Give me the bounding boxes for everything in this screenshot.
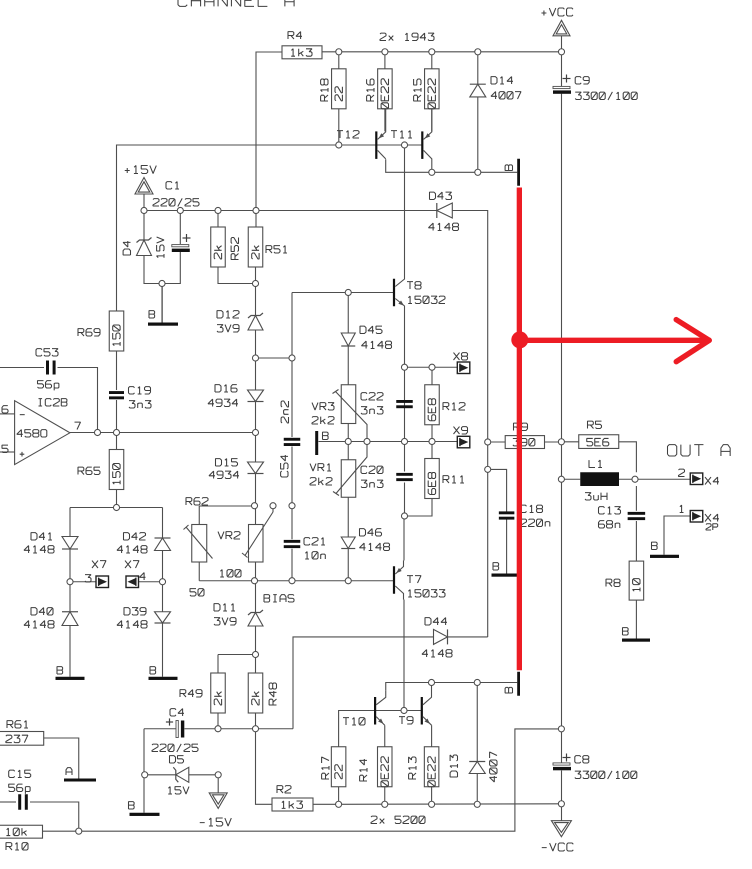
capacitor C21 (284, 540, 301, 543)
net B tick bottom (517, 672, 520, 696)
resistor R49 (211, 673, 226, 713)
wire D41/D40 column to ground (69, 549, 71, 612)
wire X8 row y=367.25 (405, 366, 458, 368)
wire bias row y=580.75 to T7 base (199, 580, 393, 582)
diode D11 zener 3V9 (248, 610, 263, 615)
transistor T11 (421, 131, 423, 159)
resistor R13 (424, 747, 439, 787)
junction (401, 513, 407, 519)
capacitor C18 (499, 511, 514, 514)
terminal X7 pin4 (126, 576, 139, 588)
junction (252, 429, 258, 435)
wire T10/T9 base row (375, 710, 422, 712)
net A tick (64, 779, 96, 782)
diode D45 (341, 333, 355, 346)
junction (141, 207, 147, 213)
junction (252, 726, 258, 732)
wire D42/D39 column to ground (162, 551, 164, 612)
wire R69/C19/R65 feedback column (116, 350, 118, 390)
junction (215, 772, 221, 778)
junction (142, 772, 148, 778)
junction (429, 169, 435, 175)
resistor R51 (248, 227, 263, 267)
wire D45 VR3 VR1 D46 column (347, 293, 349, 334)
wire R52 column (217, 211, 219, 228)
wire C15 row (0, 801, 16, 803)
wire D44 row (293, 637, 434, 729)
wire D5 row to -15V (144, 774, 176, 776)
resistor R69 (109, 311, 124, 351)
net B tick bias (315, 431, 318, 455)
diode D44 (434, 629, 448, 644)
wire L1 row to X4-2 (561, 478, 580, 480)
transistor T8 (393, 279, 395, 307)
resistor R18 (338, 52, 340, 69)
wire R62 branch (199, 505, 254, 507)
junction (401, 707, 407, 713)
resistor R16 (384, 52, 386, 69)
label OUT A (668, 445, 731, 456)
junction (215, 726, 221, 732)
red annotation vertical line (517, 188, 522, 671)
ground B under D4/C1 (148, 323, 178, 326)
wire opamp pin 6 stub (0, 413, 15, 415)
junction (252, 651, 258, 657)
diode D13 (469, 761, 485, 763)
junction (429, 438, 435, 444)
net B tick top (517, 159, 520, 186)
capacitor C22 (396, 400, 413, 403)
wire D13 column (476, 683, 478, 762)
junction (270, 503, 276, 509)
junction (67, 579, 73, 585)
wire R5 row and corner (561, 441, 578, 443)
capacitor C1 (172, 245, 189, 247)
label 2x 1943 (380, 33, 434, 40)
wire bias bottom row y=728.75 (144, 728, 176, 730)
wire R2 row (313, 803, 339, 805)
wire opamp pin 5 stub (0, 451, 15, 453)
junction (558, 49, 564, 55)
wire T12/T11 collector bus y=172.3 (386, 159, 518, 172)
wire C4/C1 ground stubs etc (161, 284, 163, 323)
capacitor C20 (396, 473, 413, 476)
capacitor C13 (628, 512, 646, 515)
resistor R2 (272, 798, 313, 811)
junction (558, 801, 564, 807)
wire +15V rail / D43 row y=210.5 (144, 194, 437, 210)
junction (253, 207, 259, 213)
wire T10 collector bus y=682.5 (386, 683, 517, 691)
resistor R52 (211, 227, 226, 267)
junction (428, 679, 434, 685)
ground B under R8 (622, 639, 650, 642)
wire D11/R48/R49 joins (218, 654, 256, 656)
wire X7 row (70, 581, 96, 583)
terminal X9 (457, 436, 470, 448)
junction (475, 49, 481, 55)
junction (429, 801, 435, 807)
junction (177, 207, 183, 213)
junction (632, 476, 638, 482)
resistor R4 (282, 46, 322, 59)
ground B under D39 (149, 677, 178, 680)
wire VR2 wiper to junction (272, 506, 274, 512)
transistor T9 (421, 697, 423, 725)
diode D39 (155, 612, 171, 623)
junction (401, 142, 407, 148)
junction (429, 49, 435, 55)
diode D46 (341, 537, 355, 549)
junction (558, 439, 564, 445)
variable resistor R62 (192, 525, 207, 563)
wire R11 stubs (431, 442, 433, 459)
wire C4 left leg to D5 and ground (143, 729, 145, 813)
transistor T12 (375, 131, 377, 159)
power -15V (209, 793, 227, 809)
junction (401, 438, 407, 444)
junction (345, 578, 351, 584)
wire X4-1 to ground (664, 516, 690, 555)
wire R10 row (43, 830, 79, 832)
wire VR2 to D11 to R48 column (255, 562, 257, 613)
trimmer VR1 (341, 460, 356, 498)
diode D16 (248, 390, 264, 402)
junction (251, 503, 257, 509)
resistor R65 (109, 450, 124, 490)
diode D4 zener 15V (137, 238, 152, 243)
diode D40 (62, 611, 78, 613)
red annotation arrow (519, 338, 706, 343)
terminal X8 (457, 362, 470, 374)
junction (336, 142, 342, 148)
junction (251, 578, 257, 584)
junction (215, 207, 221, 213)
wire bias B-tick row y=441.5 (319, 441, 458, 443)
wire T8 collector riser x=404.5 (404, 145, 406, 276)
junction (336, 49, 342, 55)
transistor T7 (393, 566, 395, 594)
diode D12 zener 3V9 (248, 313, 263, 318)
junction (252, 280, 258, 286)
junction (289, 355, 295, 361)
capacitor C8 (553, 763, 570, 765)
inductor L1 (580, 472, 619, 486)
resistor R5 (579, 435, 619, 449)
wire R17 base riser to T10 (339, 711, 374, 747)
junction (289, 503, 295, 509)
capacitor C15 (18, 794, 21, 810)
wire op-amp output row y=432.5 (70, 432, 256, 434)
wire D4 column (143, 211, 145, 241)
power -VCC (551, 821, 571, 837)
capacitor C9 (553, 86, 570, 88)
ground B under C18 (492, 574, 518, 577)
diode D15 (248, 462, 264, 474)
diode D5 zener 15V (173, 767, 178, 782)
junction (113, 504, 119, 510)
junction (364, 438, 370, 444)
wire C18 branch (488, 469, 507, 512)
junction (474, 801, 480, 807)
transistor T10 (374, 697, 376, 725)
junction (382, 49, 388, 55)
wire C54/C21 column (291, 293, 293, 438)
resistor R10 (0, 825, 43, 838)
wire output rail x=561.5 from C9 to C8 (561, 36, 563, 86)
label 2x 5200 (371, 816, 425, 823)
junction (475, 169, 481, 175)
wire C13/R8 column (635, 486, 637, 511)
junction (345, 438, 351, 444)
wire T8 base row y=292.5 (292, 292, 393, 294)
junction (289, 578, 295, 584)
wire T7 collector riser to bases (403, 600, 405, 711)
ground B under D40 (56, 677, 85, 680)
op-amp IC2B (15, 401, 70, 465)
red annotation node dot (511, 331, 528, 348)
junction (76, 828, 82, 834)
wire R9 row (488, 441, 506, 443)
terminal X7 pin3 (96, 576, 109, 588)
junction (485, 466, 491, 472)
resistor R8 (629, 561, 644, 600)
label BIAS (264, 595, 294, 602)
power +VCC (553, 20, 570, 36)
wire T7 emitter riser (403, 516, 405, 561)
junction (159, 579, 165, 585)
resistor R11 (425, 459, 440, 499)
wire feedback tap from output rail (79, 729, 562, 831)
ground B near X4 (650, 555, 679, 558)
capacitor C19 (109, 391, 124, 394)
ground B bottom left (130, 813, 160, 816)
junction (94, 429, 100, 435)
resistor R48 (248, 673, 263, 713)
wire -VCC bottom rail y=804 (339, 803, 562, 806)
resistor R14 (378, 747, 393, 787)
junction (401, 364, 407, 370)
resistor R15 (431, 52, 433, 69)
junction (113, 429, 119, 435)
power +15V (135, 178, 153, 195)
diode D41 (62, 537, 78, 550)
capacitor C4 220/25 (176, 721, 178, 738)
trimmer VR2 (249, 525, 264, 563)
junction (252, 355, 258, 361)
wire driver base rail y=145 with left feedback corner (117, 145, 422, 311)
wire R17 bottom (338, 787, 340, 805)
wire R4 left drop to +15V rail and R51 column (256, 52, 282, 227)
wire T8 emitter column to C22/C20 (404, 310, 406, 442)
junction (558, 726, 564, 732)
junction (345, 289, 351, 295)
capacitor C53 (46, 361, 49, 375)
terminal X4 pin1 (690, 511, 703, 523)
resistor R12 (425, 385, 440, 425)
resistor R17 (331, 747, 346, 787)
wire clamp row y=507.5 D41..D42 (70, 507, 163, 509)
wire C53 feedback row (0, 367, 44, 369)
junction (336, 801, 342, 807)
wire R12 stubs (431, 367, 433, 385)
trimmer VR3 (341, 385, 356, 424)
title CHANNEL A (178, 0, 294, 6)
terminal X4 pin2 (690, 473, 703, 485)
diode D14 (477, 52, 479, 84)
junction (159, 280, 165, 286)
junction (474, 679, 480, 685)
junction (429, 364, 435, 370)
wire R51 to D12 to D16 to D15 column (255, 267, 257, 316)
wire +VCC top rail y=51.5 (322, 51, 562, 53)
diode D43 (436, 203, 438, 218)
resistor R61 (0, 732, 44, 746)
junction (558, 476, 564, 482)
junction (382, 801, 388, 807)
wire R61 to net A (44, 738, 79, 779)
wire R13 column (431, 725, 433, 746)
wire row y=358 D16 junction to C54 column (256, 357, 293, 359)
diode D42 (155, 537, 171, 539)
junction (485, 439, 491, 445)
capacitor C54 (284, 438, 301, 441)
wire R14 column (384, 725, 386, 746)
wire C1 column (179, 211, 181, 245)
resistor R9 (505, 436, 544, 449)
